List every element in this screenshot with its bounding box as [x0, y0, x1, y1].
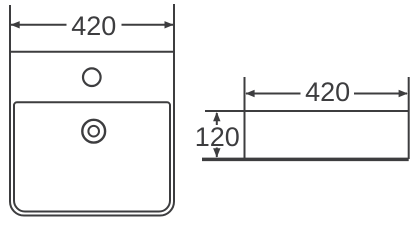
- svg-text:120: 120: [195, 122, 240, 152]
- svg-text:420: 420: [305, 77, 350, 107]
- svg-text:420: 420: [71, 11, 116, 41]
